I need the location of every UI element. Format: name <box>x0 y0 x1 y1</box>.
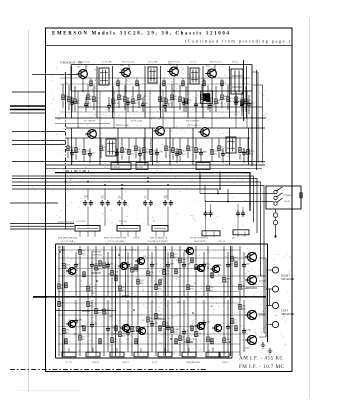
wire lead top RM11 <box>172 138 174 147</box>
mid strip bus y123 <box>55 123 110 125</box>
wire lead bot RIF11 <box>159 103 161 110</box>
wire lead top RB5 <box>95 297 97 308</box>
audio wire y352 <box>60 351 240 353</box>
wire lead bot CIF6 <box>164 109 166 112</box>
svg-text:10K: 10K <box>190 146 194 149</box>
vertical wire x65 lower <box>65 178 67 229</box>
resistor RB3 <box>79 335 81 340</box>
wire lead bot RM16 <box>218 152 220 158</box>
wire lead top RA15 <box>179 246 181 257</box>
wire lead top CA9 <box>227 252 229 262</box>
wire drop IF 11 <box>246 91 248 128</box>
wire lead bot CM5 <box>156 156 158 163</box>
wire lead bot RIF2 <box>68 103 70 110</box>
wire lead top CB4 <box>127 300 129 330</box>
svg-text:6.8K: 6.8K <box>142 152 147 155</box>
wire IF stage vert 5 <box>160 66 162 118</box>
bus line 1 corner <box>12 179 257 234</box>
pin box P8 <box>219 352 229 357</box>
svg-text:6.8K: 6.8K <box>114 270 119 273</box>
capacitor CA2 <box>90 262 94 268</box>
wire lead top RM12 <box>179 138 181 149</box>
audio mid rail <box>33 296 266 298</box>
audio wire y276 <box>58 275 265 277</box>
capacitor CM9 <box>242 150 246 156</box>
capacitor CB2 <box>90 322 94 328</box>
wire mid stage vert 3 <box>117 128 119 165</box>
right feed join b <box>264 332 266 334</box>
svg-text:AUDIO OUTPUT: AUDIO OUTPUT <box>57 221 75 224</box>
wire mid stage vert 4 <box>144 128 146 165</box>
wire lead top RIF15 <box>185 86 187 98</box>
wire lead top RIF14 <box>179 85 181 96</box>
wire lead top RB12 <box>155 297 157 313</box>
svg-text:6.8K: 6.8K <box>176 260 181 262</box>
wire mid stage vert 9 <box>248 128 250 165</box>
svg-text:2SB375: 2SB375 <box>122 362 130 364</box>
wire lead bot RB13 <box>163 328 165 356</box>
wire lead bot CIF8 <box>195 108 197 112</box>
junction IF 4 <box>211 90 213 92</box>
wire bias lead RT7 <box>221 78 223 80</box>
wire stub B+ a <box>10 105 46 107</box>
capacitor CM4 <box>138 151 142 157</box>
pin box lead P5 <box>164 348 166 352</box>
wire lead top RB9 <box>131 297 133 326</box>
resistor RIF19 <box>221 95 223 100</box>
IF strip bus y118 <box>55 117 266 119</box>
coupling capacitor Ca2 <box>100 200 104 206</box>
pin box P6 <box>182 352 196 357</box>
wire mid stage vert 1 <box>71 128 73 165</box>
wire to jack b <box>205 201 274 203</box>
wire lead top RIF12 <box>165 86 167 98</box>
wire lead top RM14 <box>195 138 197 147</box>
connector tick J3 <box>154 227 166 229</box>
wire lead top CB5 <box>151 300 153 321</box>
wire lead bot RIF_x2 <box>241 106 243 116</box>
resistor RD10 lower extra <box>235 326 237 331</box>
IF board right edge a <box>251 65 253 167</box>
wire lead bot RM15 <box>211 156 213 162</box>
wire lead top CM5 <box>156 148 158 150</box>
wire IF stage vert 6 <box>187 66 189 118</box>
svg-text:(1.7 AT AMP): (1.7 AT AMP) <box>61 240 75 243</box>
wire lead bot RIF10 <box>138 101 140 108</box>
IF strip bus y91 <box>71 90 252 92</box>
resistor RM3 <box>83 149 85 154</box>
audio junction 2 <box>96 280 98 282</box>
svg-text:2SB33: 2SB33 <box>222 362 229 364</box>
right feed join a <box>261 275 267 277</box>
wire emitter lead TR2 <box>125 78 127 91</box>
IF board box left <box>70 65 72 92</box>
wire lead top RM8 <box>143 138 145 147</box>
pin box P3 <box>110 352 124 357</box>
output collector wire c <box>259 313 266 315</box>
capacitor CM3 <box>115 150 119 156</box>
wire lead bot CM4 <box>139 157 141 163</box>
long wire y84 <box>60 83 250 85</box>
wire lead top RB16 <box>187 297 189 337</box>
wire lead top RA10 <box>137 246 139 278</box>
junction bus 4 <box>147 181 149 183</box>
wire lead top RB19 <box>223 297 225 337</box>
svg-text:68K: 68K <box>177 302 181 304</box>
wire lead bot RA4 <box>87 292 89 296</box>
wire lead top RB4 <box>87 297 89 301</box>
wire emitter lead TR4 <box>211 78 213 91</box>
wire stub vol c <box>10 228 74 230</box>
wire emitter lead TR3 <box>173 78 175 91</box>
wire lead top RA14 <box>171 246 173 252</box>
wire top right a <box>252 71 258 73</box>
svg-text:330: 330 <box>108 274 111 276</box>
resistor RA8 <box>119 286 121 291</box>
wire cap to connector 1 <box>87 206 89 226</box>
IF transformer T7 <box>190 68 199 84</box>
wire lead bot RB15 <box>179 342 181 356</box>
wire lead bot CA5 <box>151 268 153 296</box>
wire lead bot RA9 <box>131 273 133 296</box>
junction bus 5 <box>167 184 169 186</box>
wire lead top CIF8 <box>195 97 197 102</box>
resistor RB8 <box>119 332 121 337</box>
capacitor CIF11 <box>240 102 244 108</box>
wire lead bot RM14 <box>195 154 197 160</box>
wire lead top RA16 <box>187 246 189 284</box>
audio board box right <box>267 244 269 342</box>
capacitor CB3 <box>106 326 110 332</box>
wire lead top RIF19 <box>221 84 223 94</box>
junction IF 1 <box>82 90 84 92</box>
wire bias lead RT1 <box>90 78 92 80</box>
capacitor CIF_x1 <box>247 101 251 107</box>
resistor RT3 bias <box>136 81 138 86</box>
right feed wire b <box>262 85 264 163</box>
wire lead top RB3 <box>79 297 81 334</box>
output collector wire a <box>259 257 266 259</box>
svg-text:1K: 1K <box>138 146 141 149</box>
wire lead bot CA8 <box>203 268 205 296</box>
connector pin 11 <box>237 231 239 237</box>
wire lead bot CB10 <box>243 334 245 352</box>
wire IF stage vert 2 <box>96 66 98 118</box>
wire lead top CB9 <box>227 300 229 324</box>
audio junction 11 <box>229 341 231 343</box>
capacitor CIF7 <box>182 100 186 106</box>
wire lead bot CB1 <box>75 324 77 352</box>
vertical board edge x65 dashdot <box>65 115 67 171</box>
wire lead bot RB7 <box>111 344 113 356</box>
wire lead bot RA21 <box>239 290 241 296</box>
wire lead top RB10 <box>137 297 139 326</box>
wire lead top CM4 <box>139 148 141 151</box>
wire lead bot RM1 <box>67 152 69 158</box>
phono jack contact 1 <box>274 190 277 193</box>
connector pin 5 <box>127 231 129 237</box>
wire lead bot CA3 <box>107 268 109 296</box>
mid strip bus y138 <box>66 137 250 139</box>
wire lead bot RB2 <box>63 335 65 356</box>
wire lead top CA8 <box>203 252 205 262</box>
wire bias lead RT3 <box>136 78 138 80</box>
svg-text:C82: C82 <box>121 70 124 72</box>
capacitor CB10 <box>242 328 246 334</box>
wire lead top RA20 <box>231 246 233 255</box>
wire lead top CIF7 <box>183 97 185 100</box>
svg-text:.05: .05 <box>262 311 265 313</box>
svg-text:47K: 47K <box>159 151 163 154</box>
svg-text:B- 9V: B- 9V <box>152 362 158 364</box>
resistor RA7 <box>111 270 113 275</box>
svg-text:EMERSON Models 31C28, 29, 30: EMERSON Models 31C28, 29, 30, Chassis 12… <box>52 32 230 37</box>
resistor RIF17 <box>207 97 209 102</box>
svg-text:TR8 2SA235: TR8 2SA235 <box>168 60 181 63</box>
resistor RB7 <box>111 338 113 343</box>
connector J3 <box>152 226 168 232</box>
wire lead top RB11 <box>147 297 149 316</box>
resistor RD7 lower extra <box>175 339 177 344</box>
resistor RA4 <box>87 286 89 291</box>
audio wire y268 <box>58 268 200 270</box>
capacitor CIF8 <box>194 102 198 108</box>
wire lead top CB10 <box>243 300 245 328</box>
capacitor CM8 <box>221 151 225 157</box>
wire lead top RM9 <box>150 138 152 149</box>
capacitor CB1 <box>74 318 78 324</box>
svg-text:T7 10.7: T7 10.7 <box>190 61 198 63</box>
bus junction d <box>121 184 123 186</box>
svg-text:(SEE NOTE): (SEE NOTE) <box>194 240 207 243</box>
wire lead top CB1 <box>75 300 77 318</box>
bus line 0 corner <box>12 176 254 222</box>
wire lead bot CA6 <box>167 268 169 296</box>
dashed chassis line <box>10 369 208 371</box>
resistor RB21 <box>239 304 241 309</box>
connector pin 2 <box>87 231 89 237</box>
wire lead top CIF10 <box>235 97 237 100</box>
svg-text:FM DET: FM DET <box>113 167 122 169</box>
IF strip bus y107 <box>78 106 262 108</box>
audio junction 7 <box>81 325 83 327</box>
wire cap C31 lead <box>210 204 212 211</box>
coupling capacitor Cb4 <box>149 200 153 206</box>
output collector wire b <box>259 280 266 282</box>
resistor RT1 bias <box>90 81 92 86</box>
wire lead top RIF20 <box>227 85 229 96</box>
junction bus corner <box>249 203 251 205</box>
resistor RT4 bias <box>163 81 165 86</box>
wire lead bot CIF2 <box>85 108 87 112</box>
connector pin 7 <box>155 231 157 237</box>
wire lead top CIF9 <box>209 97 211 103</box>
svg-text:68K: 68K <box>164 196 168 198</box>
wire lead bot RIF7 <box>118 101 120 108</box>
capacitor CB7 <box>182 329 186 335</box>
wire lead top RIF_x2 <box>241 92 243 99</box>
wire step to jack a <box>217 189 219 194</box>
wire jack down a <box>275 209 277 213</box>
wire stub osc b <box>12 144 66 146</box>
wire drop IF 9 <box>211 91 213 128</box>
IF board box top <box>71 64 252 66</box>
wire lead top RA7 <box>111 246 113 269</box>
resistor RT7 bias <box>221 81 223 86</box>
IF transformer T9 <box>106 139 116 156</box>
vertical board edge x65 solid <box>65 72 67 115</box>
phono jack contact 3 <box>274 202 277 205</box>
svg-text:1K: 1K <box>61 284 64 287</box>
wire cap C32 lead <box>237 204 239 211</box>
wire jack right top <box>300 186 302 192</box>
page bottom edge <box>18 390 80 392</box>
audio joint 9 <box>113 333 118 335</box>
wire lead top RA11 <box>147 246 149 270</box>
wire lead bot RB3 <box>79 341 81 356</box>
wire lead bot CM3 <box>116 156 118 163</box>
stage box vert x230 <box>230 246 232 356</box>
coupling capacitor Ca4 <box>143 200 147 206</box>
wire lead bot RIF8 <box>124 103 126 110</box>
svg-text:1K: 1K <box>61 302 64 305</box>
IF transformer T5 <box>99 68 109 85</box>
svg-text:30V: 30V <box>232 238 236 240</box>
wire lead bot RIF3 <box>74 105 76 112</box>
connector tick J1 <box>77 227 98 229</box>
resistor RC3 upper extra <box>99 261 101 266</box>
wire lead bot CB8 <box>203 326 205 352</box>
audio joint 3 <box>122 295 129 297</box>
resistor RB2 <box>63 328 65 333</box>
scan noise texture <box>19 67 291 356</box>
wire cap C30 gnd <box>205 217 207 231</box>
switch arm 2 <box>277 193 283 197</box>
svg-text:5K: 5K <box>122 286 125 289</box>
wire lead bot RM18 <box>247 156 249 162</box>
capacitor CM1 <box>70 150 74 156</box>
wire lead top RB15 <box>179 297 181 335</box>
audio wire y286 <box>80 286 265 288</box>
resistor RB6 <box>103 309 105 314</box>
audio board box bottom close <box>231 352 233 358</box>
audio joint 2 <box>91 272 101 274</box>
page right edge <box>309 18 311 398</box>
wire lead top CM3 <box>116 148 118 150</box>
wire lead top RB14 <box>171 297 173 327</box>
wire lead top CM9 <box>243 148 245 150</box>
wire lead top RIF18 <box>215 86 217 98</box>
wire bus drop 5 <box>167 189 169 200</box>
resistor RA13 <box>163 269 165 274</box>
audio board box bottom <box>56 357 233 359</box>
wire jack down b <box>275 217 277 220</box>
wire lead bot RIF_x1 <box>235 103 237 116</box>
wire lead bot RA20 <box>231 262 233 296</box>
audio joint 4 <box>153 318 165 320</box>
transistor TR14 output R bot <box>245 274 257 285</box>
audio junction 4 <box>170 338 172 340</box>
wire lead bot RB10 <box>137 333 139 356</box>
svg-text:JACK: JACK <box>284 200 290 203</box>
svg-text:4.7K: 4.7K <box>163 238 168 240</box>
transistor TR9 AM-FM IF <box>205 68 217 79</box>
pin box P2 <box>86 352 100 357</box>
wire lead top RB2 <box>63 297 65 328</box>
resistor RD4 lower extra <box>115 326 117 331</box>
resistor RIF16 <box>201 95 203 100</box>
capacitor C32 <box>236 211 240 217</box>
capacitor C30 <box>203 211 207 217</box>
wire lead top RA13 <box>163 246 165 269</box>
transistor TR15 1st audio L <box>66 319 76 328</box>
svg-text:10K: 10K <box>122 332 126 335</box>
svg-text:1K: 1K <box>130 331 133 334</box>
coupling capacitor Ca3 <box>117 200 121 206</box>
wire lead top CM8 <box>222 148 224 151</box>
wire bus drop 3 <box>121 189 123 200</box>
resistor RT2 bias <box>117 81 119 86</box>
wire lead bot RM10 <box>165 152 167 158</box>
wire lead top CA2 <box>91 252 93 262</box>
stage box vert x165 <box>165 246 167 356</box>
resistor RC10 upper extra <box>235 262 237 267</box>
stage box horiz y310 <box>56 310 116 312</box>
wire lead bot CA9 <box>227 268 229 296</box>
resistor RM7 <box>135 146 137 151</box>
capacitor CA1 <box>74 262 78 268</box>
wire lead top CM6 <box>176 148 178 151</box>
svg-text:C17: C17 <box>169 70 172 72</box>
svg-text:R11: R11 <box>122 290 126 292</box>
wire lead top CB6 <box>167 300 169 325</box>
resistor RIF_x1 <box>235 97 237 102</box>
svg-text:47K: 47K <box>206 321 210 324</box>
audio junction 3 <box>133 309 135 311</box>
resistor RIF12 <box>165 99 167 104</box>
wire lead bot RB21 <box>239 310 241 356</box>
wire lead bot RB20 <box>231 325 233 356</box>
svg-text:2.2K: 2.2K <box>98 309 103 312</box>
resistor RA21 <box>239 284 241 289</box>
svg-text:T8 455: T8 455 <box>232 61 239 63</box>
connector J5 <box>202 231 220 236</box>
title box divider <box>46 45 293 47</box>
wire lead top CB8 <box>203 300 205 320</box>
wire lead top RB8 <box>119 297 121 331</box>
capacitor CIF10 <box>234 100 238 106</box>
capacitor CM5 <box>155 150 159 156</box>
svg-text:R59: R59 <box>82 253 86 255</box>
svg-text:FM TAKEOFF: FM TAKEOFF <box>186 120 200 123</box>
transistor TR3 driver R2 <box>135 256 145 265</box>
wire mid stage vert 8 <box>229 128 231 165</box>
wire lead bot RA13 <box>163 276 165 296</box>
resistor RB5 <box>95 309 97 314</box>
wire lead top RIF9 <box>132 86 134 98</box>
audio junction 10 <box>192 312 194 314</box>
audio joint 5 <box>184 341 193 343</box>
wire lead top RM5 <box>121 138 123 147</box>
wire lead top RM10 <box>165 138 167 145</box>
wire mid stage vert 7 <box>192 128 194 165</box>
audio joint 8 <box>82 310 90 312</box>
svg-text:R9: R9 <box>121 99 124 101</box>
junction IF 3 <box>173 90 175 92</box>
resistor RC6 upper extra <box>159 280 161 285</box>
wire collector lead TR2 <box>128 65 130 71</box>
svg-text:.01: .01 <box>144 196 147 198</box>
